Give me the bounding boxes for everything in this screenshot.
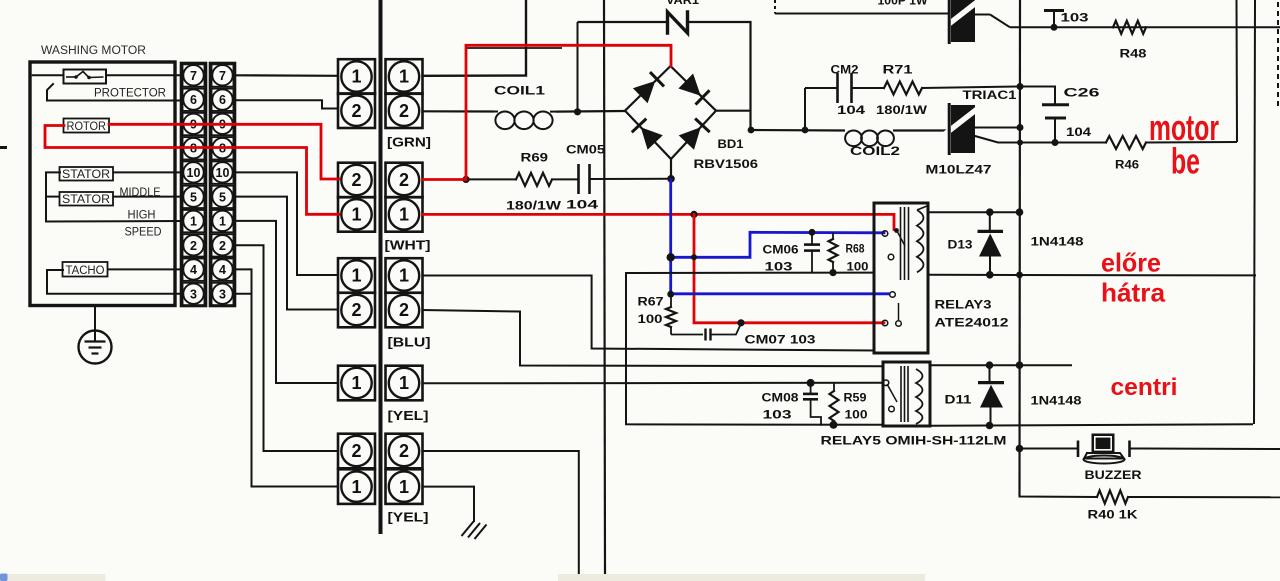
node gate/rail crossing [1017,140,1023,146]
node red branch [690,211,697,218]
wire R46 to right vertical [1146,141,1237,144]
svg-text:R46: R46 [1115,160,1139,172]
vertical motor-be line x=1237 [1236,0,1239,142]
node CM2 branch junction [802,127,809,134]
node blue branch [667,253,675,261]
wire rail to C26 top [1020,87,1055,105]
wire motor-left to protector [32,74,64,76]
stator box 1 [60,167,114,181]
wire y27 to right edge [1010,26,1280,28]
relay3 contact pins [882,231,888,237]
svg-text:COIL1: COIL1 [494,86,546,98]
node bridge bottom [667,175,675,183]
wire varistor right lead [688,22,751,130]
wire pin5 to BLU-2 [236,197,338,310]
svg-text:2: 2 [219,239,226,253]
svg-text:2: 2 [351,300,361,320]
capacitor CM06 [811,232,813,243]
svg-text:1: 1 [351,205,361,225]
svg-text:CM06: CM06 [763,245,799,257]
node MT2/rail [1017,124,1024,131]
node rail relay5 top [1016,361,1024,369]
svg-text:1: 1 [351,373,361,393]
connector strip right (pins 7 6 9 8 10 5 1 2 4 3) [210,63,235,306]
wire relay5 top right [930,364,1072,366]
wire TRIAC1 MT2 to rail [975,127,1020,129]
node blue/red crossing [691,254,697,260]
wire CM05 to bridge bottom node [590,178,672,180]
connector YEL2 lower right half (2,1) [386,434,423,469]
wire pin3 join [236,293,252,295]
tacho box [63,262,108,277]
capacitor CM07 [671,334,703,336]
resistor R40 [1097,491,1128,504]
node cap103 junction [1051,24,1058,31]
diode D11 (1N4148) [989,365,991,381]
capacitor C26 [1042,103,1069,106]
node D11 bottom [986,422,994,430]
svg-text:R40 1K: R40 1K [1088,510,1139,522]
svg-text:HIGH: HIGH [128,210,156,222]
wire stator common left link [46,172,60,221]
svg-text:100: 100 [847,262,869,274]
thermal protector symbol [64,70,107,84]
wire GRN-1 up to mains [423,0,527,76]
svg-text:3: 3 [219,287,226,301]
relay RELAY3 box [874,203,928,353]
relay5 core and coil [900,366,902,422]
wire R40 to right edge [1128,496,1280,498]
svg-text:ROTOR: ROTOR [67,121,107,133]
svg-text:M10LZ47: M10LZ47 [926,165,992,177]
svg-text:1: 1 [399,266,409,286]
relay RELAY5 box [883,362,930,426]
wire high-speed tap to pin 1 [46,220,181,223]
node D13 bottom [986,271,994,279]
wire COIL1 to bridge left corner [556,110,625,113]
wire protector to pin 7 [106,74,181,76]
capacitor CM08 [810,383,812,393]
wire protector lower branch to pin 6 [47,84,181,101]
svg-text:R71: R71 [883,65,914,77]
svg-text:BUZZER: BUZZER [1085,470,1143,482]
svg-text:1: 1 [399,67,409,87]
svg-text:104: 104 [566,200,599,212]
svg-text:[YEL]: [YEL] [388,409,429,423]
red wire branch down to relay contacts [694,214,884,322]
wire TRIAC1 gate [975,136,1055,143]
svg-text:1: 1 [399,477,409,497]
svg-text:WASHING MOTOR: WASHING MOTOR [41,45,146,57]
bridge diode bottom-left [641,127,663,150]
svg-text:5: 5 [219,190,226,204]
inductor COIL1 [494,112,556,130]
svg-text:3: 3 [190,287,197,301]
blue wire bridge minus down [669,179,672,294]
node D13 top [986,208,994,216]
earth ground symbol [462,522,474,537]
svg-text:RBV1506: RBV1506 [694,159,759,171]
svg-text:STATOR: STATOR [62,169,110,181]
svg-text:R69: R69 [521,153,549,165]
connector BLU left half (1,2) [338,258,375,293]
wire bridge bottom lead [670,159,672,179]
svg-text:PROTECTOR: PROTECTOR [94,88,166,100]
triac 2 (top) [945,0,981,44]
stator box 2 [60,192,114,206]
vertical line x=1255 [1254,0,1255,424]
svg-text:1: 1 [399,373,409,393]
resistor R69 [516,173,552,186]
svg-text:1N4148: 1N4148 [1031,396,1083,408]
svg-text:1N4148: 1N4148 [1031,237,1085,249]
svg-text:104: 104 [1066,127,1092,139]
svg-text:2: 2 [190,239,197,253]
wire GRN-2 to COIL1 [423,110,495,112]
wire under red (GRN feed) [467,47,562,49]
svg-text:R59: R59 [844,393,867,405]
taskbar fragment middle [558,574,925,581]
svg-text:RELAY3: RELAY3 [935,300,992,312]
red wire WHT-2 to bridge top [423,45,672,179]
capacitor CM2 [836,73,839,103]
red wire ROTOR left to pin 8 and WHT-1 [45,126,339,215]
svg-text:RELAY5 OMIH-SH-112LM: RELAY5 OMIH-SH-112LM [821,436,1007,448]
washing motor outline box [30,62,175,306]
svg-text:7: 7 [190,69,197,83]
bridge diode top-left [633,81,655,103]
bridge diode bottom-right [679,127,701,150]
svg-text:D13: D13 [948,240,973,252]
svg-text:TACHO: TACHO [66,265,105,277]
svg-text:2: 2 [399,441,409,461]
wire WHT-2 node to R69 [466,178,516,180]
bridge outline BD1 [625,66,716,159]
connector WHT left half (2,1) [338,163,375,198]
diode D13 (1N4148) [989,212,991,230]
svg-text:103: 103 [763,410,792,422]
taskbar icon fragment [0,574,8,581]
wire rail corner to R40 [1020,449,1098,498]
svg-text:hátra: hátra [1101,278,1166,308]
svg-text:2: 2 [351,101,361,121]
protective earth symbol (circle) [79,331,112,364]
svg-text:be: be [1171,141,1200,182]
svg-text:[BLU]: [BLU] [388,336,431,350]
inductor COIL2 [751,130,949,146]
node blue corner [667,291,674,298]
connector BLU right half (1,2) [386,258,423,293]
svg-text:R48: R48 [1120,49,1148,61]
svg-text:TRIAC1: TRIAC1 [963,90,1018,102]
wire pin7 to GRN-1 [236,74,338,77]
svg-text:1: 1 [351,477,361,497]
resistor R59 [833,383,835,391]
wire CM2 branch up [804,88,806,130]
svg-text:6: 6 [219,93,226,107]
wire relay5 bottom (centri line) [930,424,1253,426]
dashed page edge x=1278 [1277,2,1279,108]
svg-text:[GRN]: [GRN] [387,136,431,150]
svg-text:STATOR: STATOR [62,194,110,206]
wire pin2 to YEL2-2 [236,245,338,451]
wire YEL2-1 to earth [423,487,475,521]
vertical DC rail x=1020 [1018,0,1021,497]
wire relay3 to D13 line [928,211,1020,213]
node CM07/red junction [737,319,744,326]
svg-text:centri: centri [1111,374,1178,401]
capacitor CM05 [577,164,580,194]
svg-text:5: 5 [190,190,197,204]
wire varistor left lead [578,21,667,23]
wire to buzzer [1020,448,1079,450]
node R59 bottom [830,421,838,429]
connector WHT right half (2,1) [386,163,423,198]
node CM08 top [807,379,815,387]
svg-text:1: 1 [351,266,361,286]
triac TRIAC1 [945,103,981,155]
svg-text:6: 6 [190,93,197,107]
svg-text:CM05: CM05 [566,145,606,157]
rotor box [64,119,110,133]
resistor R67 [670,296,672,308]
node buzzer branch [1016,445,1024,453]
svg-text:100: 100 [638,314,663,326]
svg-text:2: 2 [351,170,361,190]
wire stator1 to pin 10 [113,171,181,173]
svg-text:1: 1 [190,215,197,229]
svg-text:10: 10 [187,166,201,180]
capacitor 103 (stub) [1053,12,1055,27]
svg-text:7: 7 [219,69,226,83]
wire pin4 to YEL2-1 [236,269,338,486]
vertical mains line x=604 [604,0,605,574]
svg-text:103: 103 [765,262,793,274]
wire to CM2 [805,87,837,89]
svg-text:100P 1W: 100P 1W [878,0,928,8]
svg-text:D11: D11 [945,395,973,407]
svg-text:2: 2 [351,441,361,461]
wire pin6 to GRN-2 [236,100,338,108]
svg-text:10: 10 [216,166,230,180]
svg-text:[WHT]: [WHT] [385,239,431,253]
svg-text:4: 4 [190,263,197,277]
connector YEL2 lower (2,1) [338,434,375,469]
node COIL1/varistor junction [574,108,581,115]
wire CM2 to R71 [852,87,885,89]
wire pin10 to BLU-1 [236,172,338,275]
buzzer BUZZER [1077,441,1080,458]
svg-text:[YEL]: [YEL] [388,511,429,525]
taskbar fragment left [8,574,106,581]
node coil2 left junction [748,127,755,134]
separator bar [379,0,383,534]
wire C26 to R46 [1055,142,1106,144]
node rail top relay3 [1016,208,1024,216]
node R68 bottom [829,269,836,276]
svg-text:180/1W: 180/1W [506,201,561,213]
relay3 core and coil [900,207,902,280]
blue branch to relay3 upper contact [671,232,884,257]
svg-text:4: 4 [219,263,226,277]
node D11 top [986,361,994,369]
svg-text:CM07 103: CM07 103 [745,335,816,347]
svg-text:103: 103 [1061,13,1089,25]
svg-text:ATE24012: ATE24012 [935,318,1009,330]
resistor R48 [1113,21,1146,34]
svg-text:COIL2: COIL2 [850,146,900,158]
ground stem [94,306,96,331]
svg-text:R67: R67 [638,297,664,309]
svg-text:2: 2 [399,300,409,320]
svg-text:előre: előre [1101,248,1161,278]
svg-text:104: 104 [837,105,866,117]
svg-text:VAR1: VAR1 [666,0,700,7]
enclosure box around relay drivers [626,273,883,425]
wire tacho to pin 4 [108,268,181,270]
svg-text:1: 1 [219,215,226,229]
svg-text:C26: C26 [1064,88,1100,100]
wire YEL-1 to relay5 coil [423,382,884,385]
wire YEL2-2 drop [423,451,579,574]
red wire ROTOR to pin 9 and WHT-2 [109,124,339,179]
wire buzzer to right edge [1130,448,1280,451]
connector YEL upper (1) [338,366,375,401]
wire BLU-1 to relay3 bottom [423,276,875,351]
resistor R46 [1106,136,1146,149]
resistor R71 [884,82,922,95]
svg-text:R68: R68 [846,244,866,256]
wire BLU-2 to relay5 top [423,310,884,366]
wire R69 to CM05 [552,178,578,180]
dashed box 100P (top right) [774,0,776,14]
node gate line / rail [1017,83,1024,90]
node C26 bottom [1052,139,1059,146]
wire pin1 to YEL-1 [236,221,338,383]
left edge wire stub [0,146,7,149]
svg-text:SPEED: SPEED [125,227,162,239]
node CM06 top [809,229,816,236]
connector strip left (pins 7 6 9 8 10 5 1 2 4 3) [181,63,206,306]
svg-text:180/1W: 180/1W [876,105,927,117]
svg-text:2: 2 [399,101,409,121]
svg-text:BD1: BD1 [718,139,745,151]
resistor R68 [832,232,834,239]
wire varistor branch vertical [577,22,579,112]
wire triac2 out [975,14,990,16]
connector GRN right half (1,2) [386,59,423,94]
svg-text:1: 1 [399,205,409,225]
wire stator2 to pin 5 [113,196,181,198]
svg-text:CM2: CM2 [831,65,859,77]
node R69 line / red junction [462,176,469,183]
relay5 contact pins [883,380,889,386]
svg-text:2: 2 [399,170,409,190]
svg-text:CM08: CM08 [762,393,800,405]
svg-text:100: 100 [845,410,868,422]
bridge diode top-right [678,74,700,96]
red wire WHT-1 to relay3 [423,214,895,229]
varistor VAR1 [668,12,688,33]
wire R71 to rail [922,87,1020,89]
svg-text:1: 1 [351,67,361,87]
wire bridge right corner to vertical [716,110,751,112]
blue wire to relay3 mid contact [671,292,890,295]
wire tacho lower to pin 3 [47,270,181,294]
node rail elore [1016,272,1023,279]
wire elore line [928,274,1256,277]
connector GRN left half (1,2) [338,59,375,94]
